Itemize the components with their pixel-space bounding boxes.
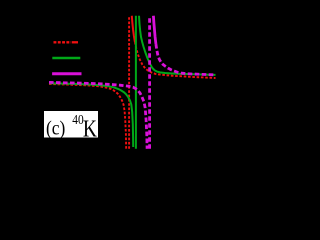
- svg-text:40: 40: [72, 112, 83, 127]
- svg-text:K: K: [83, 116, 97, 142]
- svg-text:(c): (c): [46, 118, 65, 140]
